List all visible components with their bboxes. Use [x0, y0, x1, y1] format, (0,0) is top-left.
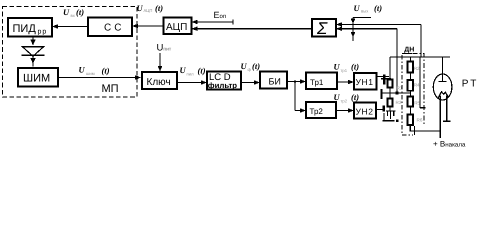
svg-text:U: U [63, 7, 70, 17]
wire Klyuch to LC filter [177, 82, 206, 84]
wire junction down to Tr2 [294, 82, 296, 111]
wire BI to branch junction [287, 81, 295, 83]
svg-text:(t): (t) [76, 7, 84, 17]
block LC filter [207, 72, 241, 90]
svg-text:СС: СС [104, 23, 124, 34]
label U_ADC(t) [137, 3, 164, 13]
filament [438, 92, 448, 98]
svg-text:Ключ: Ключ [147, 77, 171, 88]
svg-text:R1: R1 [397, 86, 403, 91]
svg-text:шим: шим [86, 71, 95, 76]
svg-text:УН2: УН2 [356, 106, 374, 116]
svg-text:(t): (t) [102, 66, 110, 76]
summator output pair wires [336, 24, 421, 26]
block Klyuch (switch) [142, 72, 177, 89]
block Tr1 [306, 73, 337, 90]
middle tap bus [381, 92, 411, 94]
svg-text:тр2: тр2 [341, 99, 348, 104]
resistor R1 [388, 80, 393, 88]
bottom wire to filament lead [414, 126, 416, 135]
block ADC [164, 18, 192, 35]
limiter diode symbol [23, 47, 44, 56]
label U_y(t) [63, 7, 84, 18]
HV bus [390, 56, 450, 58]
block Tr2 [306, 102, 336, 118]
divider dash-dot box DN [402, 53, 424, 125]
block ShIM (PWM) [18, 68, 58, 87]
svg-text:U: U [180, 65, 187, 75]
svg-text:U: U [241, 61, 248, 71]
anode plate [439, 81, 447, 83]
label U_f(t) [241, 61, 261, 72]
svg-text:ф: ф [248, 67, 252, 72]
svg-text:(t): (t) [155, 3, 163, 13]
dashed box MP (microprocessor) [3, 7, 138, 98]
UN2 output wire [376, 109, 385, 111]
svg-text:R6: R6 [417, 118, 423, 123]
svg-text:Тр1: Тр1 [310, 78, 324, 87]
wire Tr2 to UN2 [336, 110, 353, 112]
wire feedback down at x=397 [396, 29, 398, 93]
block PID regulator [8, 18, 52, 37]
ground comb [386, 110, 396, 112]
label U_tr2(t) [334, 92, 360, 104]
label U_tr1(t) [334, 62, 360, 74]
svg-text:УН1: УН1 [356, 77, 374, 87]
svg-text:БИ: БИ [269, 77, 281, 87]
parallel tap wire right of chain [419, 57, 421, 108]
filament right lead with terminal [446, 96, 448, 121]
svg-text:(t): (t) [374, 3, 382, 13]
svg-text:пил: пил [187, 72, 195, 77]
wire summator to ADC [192, 28, 313, 30]
svg-text:МП: МП [102, 83, 119, 95]
svg-text:R2: R2 [414, 66, 420, 71]
svg-text:U: U [334, 92, 341, 102]
block summator [312, 19, 336, 37]
wire LC filter to BI [241, 82, 259, 84]
wire ShIM to Klyuch [58, 77, 141, 79]
block BI [260, 72, 287, 89]
svg-text:ПИД: ПИД [13, 23, 37, 35]
svg-text:ШИМ: ШИМ [23, 73, 50, 85]
svg-text:Σ: Σ [316, 19, 328, 38]
svg-text:ДН: ДН [404, 47, 414, 54]
wire junction to Tr1 [295, 81, 305, 83]
left chain vertical top [389, 57, 391, 80]
resistor R6 [408, 115, 414, 126]
svg-text:РТ: РТ [462, 78, 479, 89]
svg-text:U: U [354, 3, 361, 13]
svg-text:R3: R3 [396, 100, 402, 105]
resistor R5 [408, 97, 414, 107]
svg-text:Тр2: Тр2 [310, 107, 324, 116]
svg-text:тр1: тр1 [341, 68, 348, 73]
svg-text:(t): (t) [252, 61, 260, 71]
wire Tr1 to UN1 [337, 81, 353, 83]
wire Eop into ADC [192, 21, 234, 23]
svg-text:U: U [334, 62, 341, 72]
svg-text:(t): (t) [351, 92, 359, 102]
resistor R4 [408, 80, 414, 91]
svg-text:R4: R4 [414, 83, 420, 88]
block UN1 [354, 73, 377, 90]
voltage measure arrow with label U_vykh(t) [351, 3, 382, 41]
svg-text:(t): (t) [351, 62, 359, 72]
svg-text:(t): (t) [198, 66, 206, 76]
label U_pil(t) [180, 65, 206, 77]
right chain from HV bus [410, 57, 412, 62]
resistor R2 [408, 62, 414, 73]
svg-text:U: U [137, 3, 144, 13]
UN1 output wires [377, 76, 390, 78]
svg-text:фильтр: фильтр [208, 81, 237, 90]
arrow PID down [32, 37, 34, 42]
resistor R3 [388, 99, 393, 107]
block UN2 [354, 103, 376, 119]
svg-text:рр: рр [38, 29, 48, 36]
ground bottom bar [383, 120, 395, 122]
block CC [88, 18, 132, 37]
x-ray tube RT [433, 74, 452, 100]
wire top feedback down at x=421 [420, 25, 422, 58]
svg-text:АЦП: АЦП [166, 22, 187, 33]
svg-text:U: U [79, 65, 86, 75]
svg-text:вых: вых [361, 9, 369, 14]
wire ADC to CC with arrow [132, 25, 164, 27]
filament left lead [439, 96, 441, 139]
svg-text:+ Внакала: + Внакала [433, 140, 466, 149]
arrow into ShIM [32, 56, 34, 66]
svg-text:АЦП: АЦП [144, 8, 153, 13]
anode lead down [442, 57, 444, 82]
label U_shim(t) [79, 65, 110, 77]
wire CC to PID with arrow [52, 26, 88, 28]
